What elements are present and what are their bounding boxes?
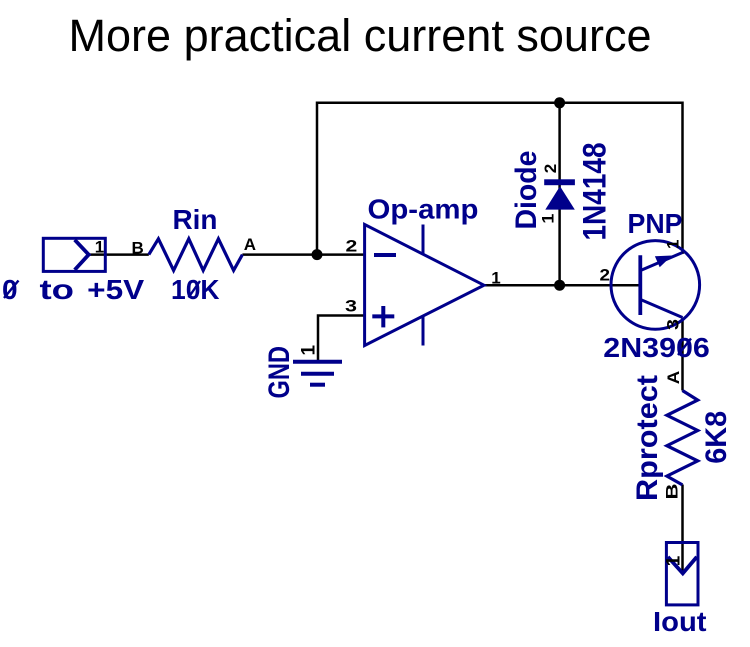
svg-text:1: 1 <box>491 268 500 287</box>
svg-text:2N3906: 2N3906 <box>603 332 710 363</box>
svg-text:3: 3 <box>664 319 683 330</box>
svg-text:3: 3 <box>345 297 357 316</box>
svg-text:1: 1 <box>664 555 685 566</box>
svg-text:2: 2 <box>541 164 560 174</box>
svg-text:A: A <box>244 235 256 254</box>
svg-text:+5V: +5V <box>87 274 144 305</box>
svg-text:6K8: 6K8 <box>700 411 733 464</box>
svg-text:1: 1 <box>299 345 320 356</box>
svg-text:1: 1 <box>664 240 683 249</box>
svg-text:1: 1 <box>539 214 558 224</box>
svg-text:to: to <box>40 274 75 305</box>
svg-text:Rin: Rin <box>173 204 218 235</box>
svg-text:Iout: Iout <box>653 606 707 637</box>
svg-text:2: 2 <box>600 266 611 285</box>
svg-text:B: B <box>132 239 144 258</box>
svg-text:Rprotect: Rprotect <box>631 375 664 501</box>
svg-text:1N4148: 1N4148 <box>577 143 613 241</box>
svg-text:2: 2 <box>346 237 358 256</box>
svg-text:Op-amp: Op-amp <box>368 194 479 225</box>
svg-text:B: B <box>663 484 682 500</box>
svg-text:GND: GND <box>263 346 296 399</box>
svg-text:1: 1 <box>95 237 104 256</box>
svg-text:More practical current source: More practical current source <box>69 10 652 61</box>
svg-text:PNP: PNP <box>628 208 683 239</box>
svg-text:A: A <box>664 371 683 385</box>
